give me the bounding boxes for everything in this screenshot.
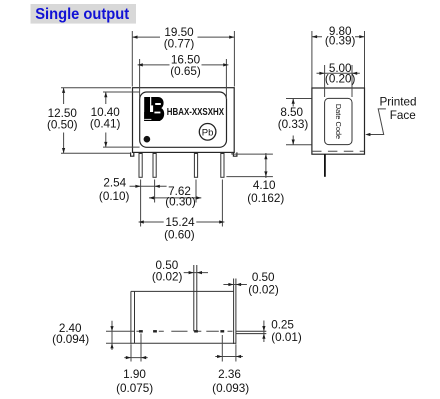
dimension 5.00 (0.20) <box>317 62 360 97</box>
svg-text:0.25: 0.25 <box>271 319 294 332</box>
dimension 0.50 (0.02) center pin <box>152 259 208 283</box>
svg-text:(0.33): (0.33) <box>278 118 309 131</box>
pin dots <box>139 330 224 332</box>
dimension 7.62 (0.30) <box>149 180 201 209</box>
pin 3 <box>194 154 197 178</box>
pin 1 index dot <box>144 136 151 143</box>
svg-text:(0.02): (0.02) <box>152 270 183 283</box>
svg-text:15.24: 15.24 <box>165 216 195 229</box>
dimension 1.90 (0.075) <box>116 334 153 396</box>
svg-text:1.90: 1.90 <box>123 368 146 381</box>
side body outline <box>312 88 365 154</box>
svg-text:(0.094): (0.094) <box>52 333 89 346</box>
svg-text:2.54: 2.54 <box>103 177 126 190</box>
pin 4 <box>221 154 224 178</box>
svg-text:Date Code: Date Code <box>334 104 343 139</box>
svg-text:(0.20): (0.20) <box>325 73 356 86</box>
dimension 8.50 (0.33) <box>278 99 312 145</box>
pin 3 blade edge-on <box>194 265 197 331</box>
svg-text:0.50: 0.50 <box>252 271 275 284</box>
svg-text:4.10: 4.10 <box>253 179 276 192</box>
svg-text:Pb: Pb <box>202 127 214 138</box>
Printed Face label <box>379 96 416 122</box>
dimension 12.50 (0.50) <box>47 88 131 154</box>
end pin blade extending right <box>236 331 266 333</box>
logo <box>144 97 164 121</box>
center line <box>136 330 232 332</box>
dimension 0.50 (0.02) wall <box>223 271 278 297</box>
svg-text:(0.093): (0.093) <box>212 382 249 395</box>
svg-text:(0.50): (0.50) <box>47 119 78 132</box>
label face <box>140 92 227 147</box>
svg-text:Face: Face <box>390 109 416 122</box>
svg-text:2.36: 2.36 <box>218 368 241 381</box>
dimension 0.25 (0.01) <box>262 319 302 344</box>
title Single output <box>31 4 137 24</box>
svg-text:(0.39): (0.39) <box>325 34 356 47</box>
dimension 16.50 (0.65) <box>138 53 229 99</box>
case outline bottom view <box>131 279 236 345</box>
dimension 19.50 (0.77) <box>132 26 234 86</box>
dimension 2.36 (0.093) <box>212 335 249 395</box>
dimension 2.54 (0.10) <box>99 177 167 203</box>
dimension 10.40 (0.41) <box>90 92 140 147</box>
date code label <box>325 98 352 144</box>
Printed Face leader arrow <box>365 109 386 136</box>
pin 1 <box>139 154 142 178</box>
svg-text:(0.01): (0.01) <box>271 331 302 344</box>
dimension 2.40 (0.094) <box>52 321 134 350</box>
svg-text:(0.30): (0.30) <box>165 196 196 209</box>
dimension 9.80 (0.39) <box>312 25 365 88</box>
svg-text:Single output: Single output <box>35 6 129 23</box>
svg-text:(0.65): (0.65) <box>170 65 201 78</box>
dimension 4.10 (0.162) pin length <box>226 152 284 205</box>
svg-text:(0.02): (0.02) <box>248 284 279 297</box>
svg-text:(0.41): (0.41) <box>90 117 121 130</box>
svg-text:(0.075): (0.075) <box>116 382 153 395</box>
Pb-free mark <box>199 124 216 141</box>
svg-text:HBAX-XXSXHX: HBAX-XXSXHX <box>167 107 224 118</box>
bottom dashed line <box>312 150 364 152</box>
pin 2 <box>153 154 156 178</box>
side pin <box>324 154 326 177</box>
svg-text:Printed: Printed <box>379 96 416 109</box>
svg-text:(0.162): (0.162) <box>247 192 284 205</box>
svg-text:(0.77): (0.77) <box>164 37 195 50</box>
svg-text:(0.10): (0.10) <box>99 190 130 203</box>
module body outline <box>131 88 237 157</box>
svg-text:(0.60): (0.60) <box>164 229 195 242</box>
dimension 15.24 (0.60) <box>139 180 225 242</box>
